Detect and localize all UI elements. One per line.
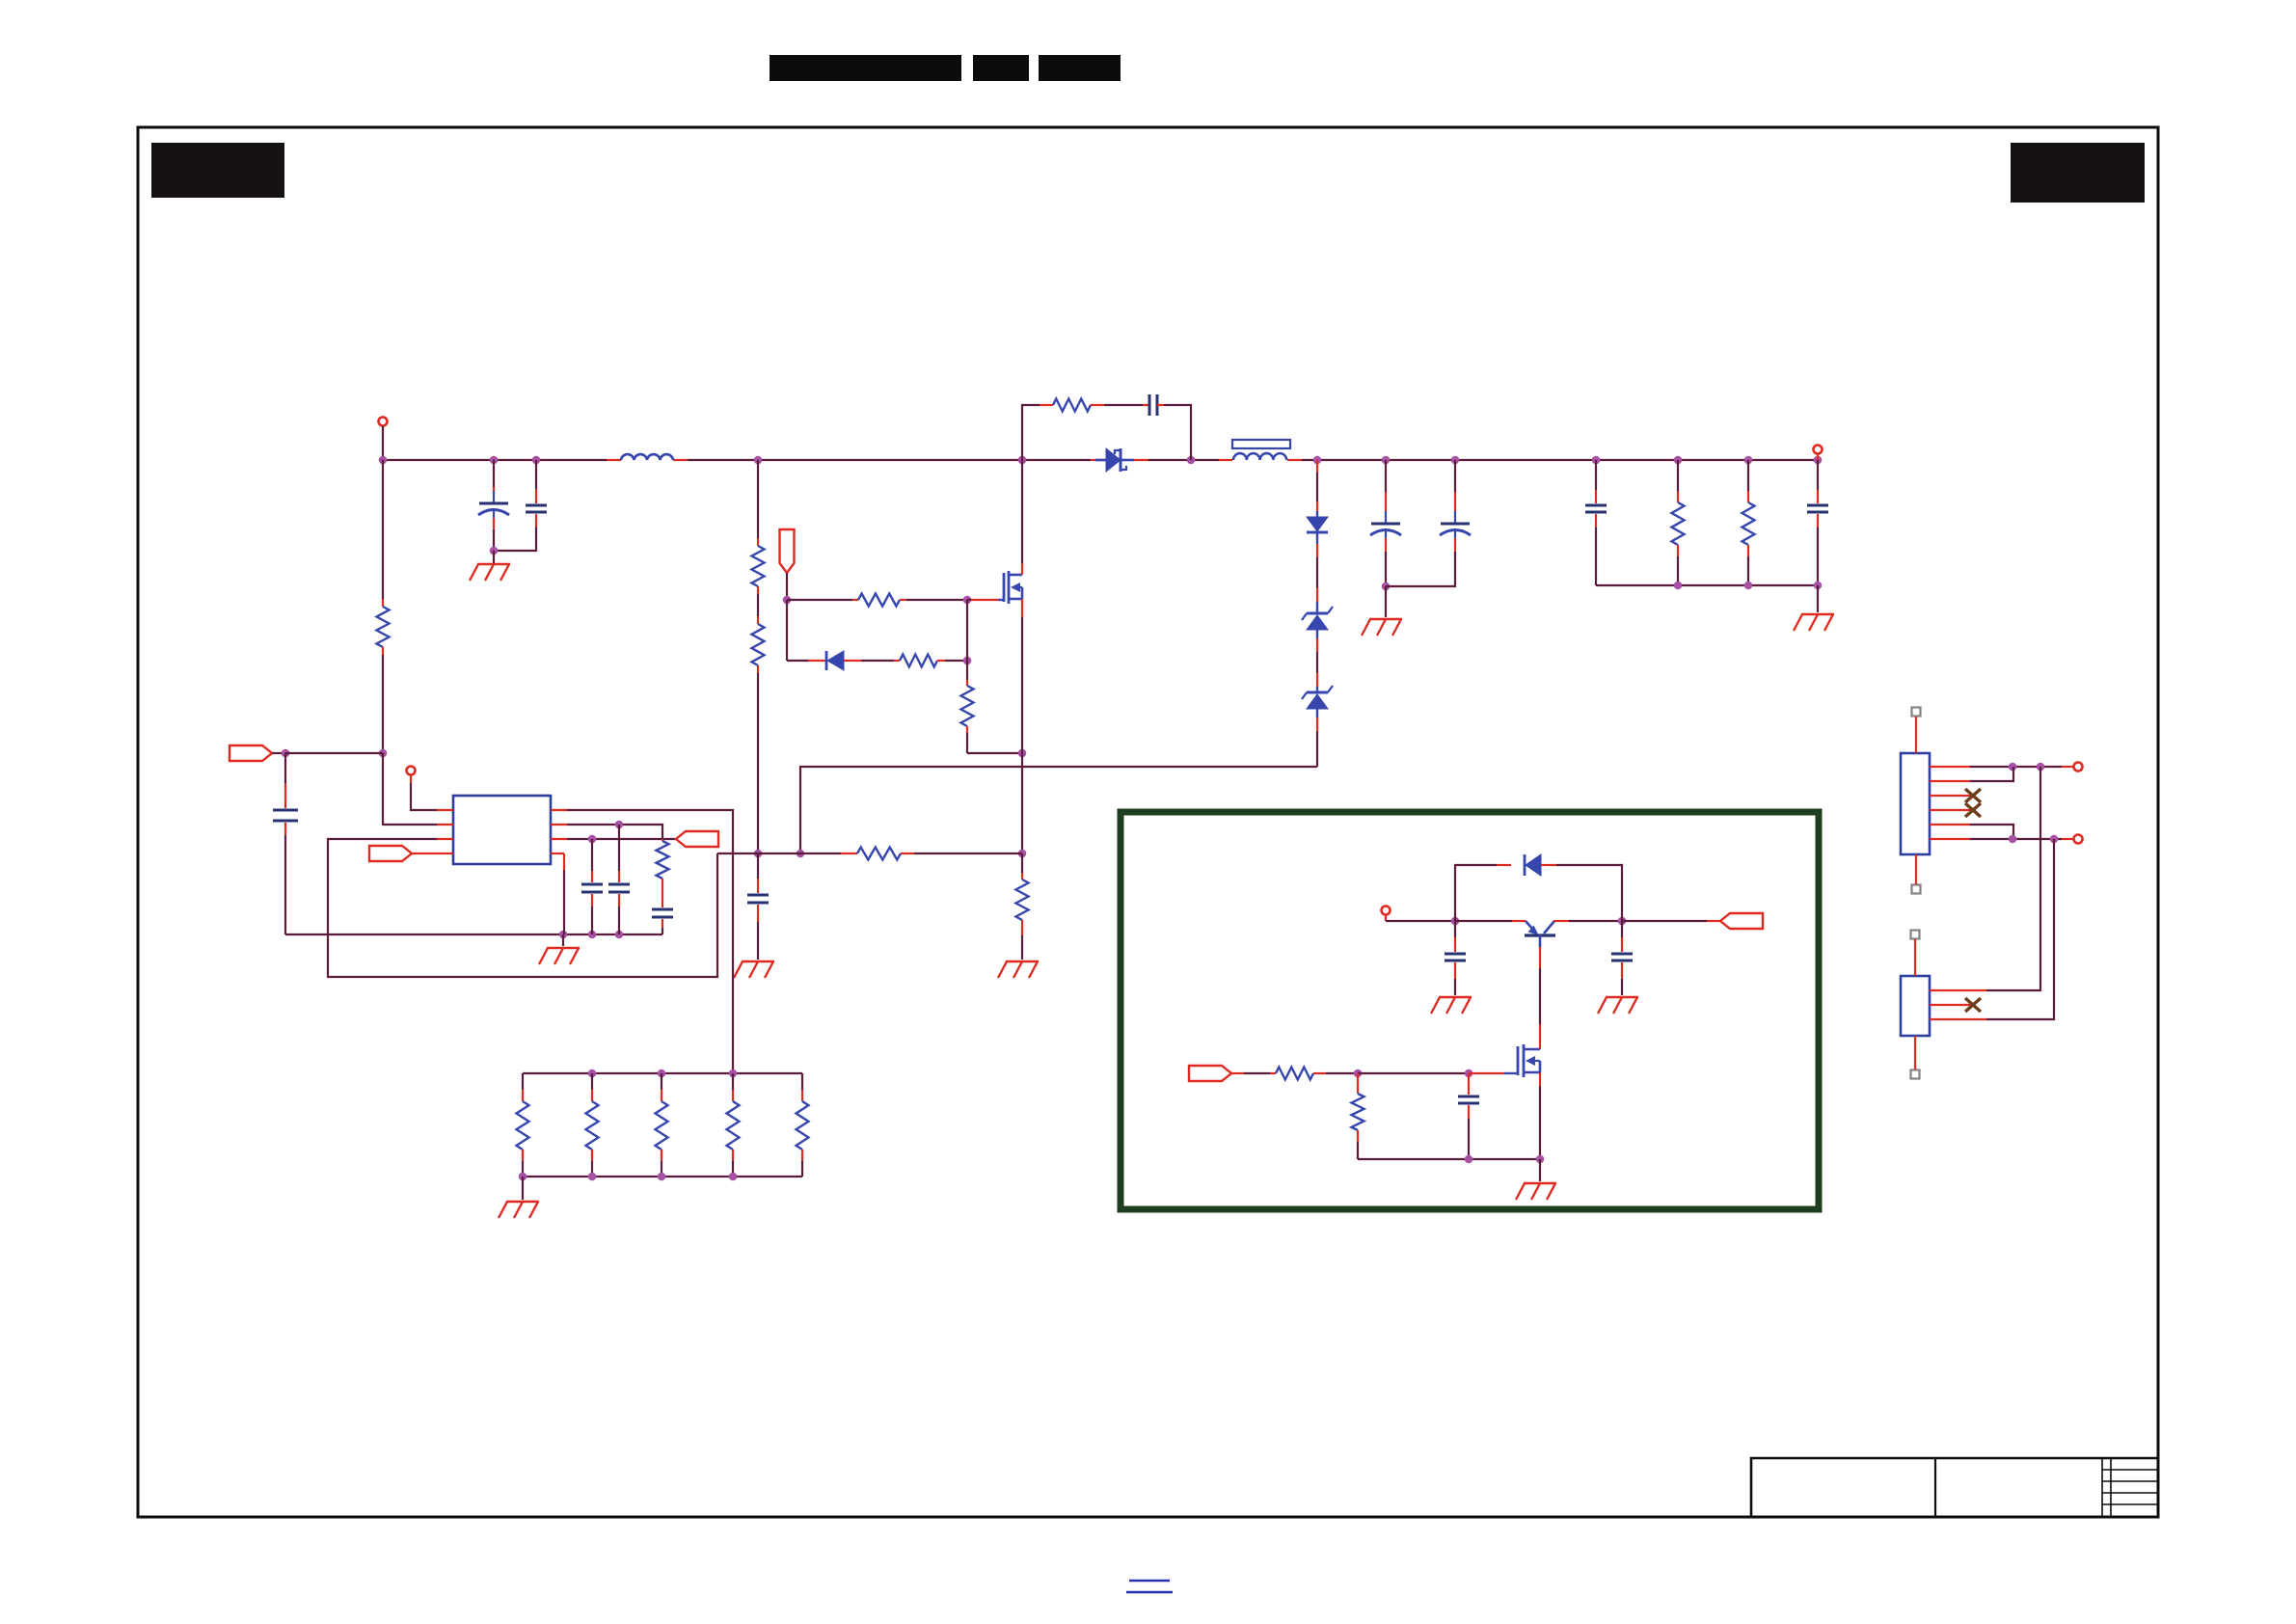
wire Q2 source rail — [1539, 1072, 1541, 1086]
resistor R18 (gate series) — [1276, 1068, 1313, 1080]
capacitor C15 (gate) — [1468, 1073, 1470, 1081]
wire pin1 to CN2 pin1 — [1986, 767, 2040, 990]
wire gate stub to Q1 — [967, 599, 971, 601]
wire divider tap — [382, 460, 384, 599]
ground C14 — [1606, 996, 1638, 998]
wire R2 to C3 — [757, 673, 759, 853]
junction output filter gnd — [1382, 582, 1391, 591]
resistor R19 (gate pulldown) — [1357, 1073, 1359, 1080]
net label flag VIN sense (down) — [780, 529, 795, 573]
wire J3 to emitter net — [1385, 914, 1387, 921]
junction feedback node — [379, 749, 388, 758]
wire resistor bank bottom rail — [523, 1176, 802, 1177]
capacitor C8 — [1817, 460, 1819, 490]
resistor R2 (divider bottom) — [757, 594, 759, 616]
junction source rail — [1465, 1155, 1473, 1164]
wire pin R4 to gnd rail — [563, 853, 565, 870]
IC U1 (controller) — [453, 796, 551, 864]
resistor R5b (return series) — [857, 848, 901, 860]
ground input filter — [477, 563, 510, 565]
transistor Q2 (N-MOSFET) — [1517, 1046, 1520, 1075]
wire gate return rail — [717, 853, 758, 854]
zener Z2 — [1316, 673, 1318, 687]
connector CN1 — [1901, 753, 1930, 854]
wire CN2 top mount — [1914, 939, 1916, 976]
diode D2 (clamp chain top) — [1316, 460, 1318, 473]
junction bus nodes — [379, 456, 388, 465]
wire IC loop pin L3 — [328, 839, 717, 977]
capacitor C6 (output, polarized) — [1454, 460, 1456, 492]
wire CN1 pin6 net — [1970, 838, 2062, 840]
resistor R11 — [1747, 460, 1749, 491]
wire flag to pin L4 — [412, 853, 437, 854]
wire bus red pin leads — [607, 459, 621, 461]
resistor R10 — [1677, 460, 1679, 491]
wire snubber loop top — [1022, 405, 1040, 460]
resistor R7 — [966, 661, 968, 680]
junction gate node — [1354, 1069, 1363, 1078]
junction bank top — [588, 1069, 597, 1078]
ground bleeder — [1801, 613, 1834, 615]
wire lower loop with D3 — [787, 660, 808, 662]
wire CN1 bottom mount — [1915, 854, 1917, 884]
resistor R16 — [732, 1073, 734, 1090]
transistor Q3 (PNP) — [1525, 934, 1555, 936]
enclosure box (green) — [1121, 812, 1819, 1209]
wire gnd rail stub — [562, 934, 564, 946]
junction gate drive node A — [783, 596, 792, 605]
zener Z1 — [1316, 588, 1318, 602]
junction node C — [963, 657, 972, 665]
pad CN1 top — [1912, 708, 1921, 717]
wire CN1 top mount — [1915, 717, 1917, 753]
capacitor C3 — [747, 894, 769, 897]
wire flag FB to node — [272, 752, 285, 754]
wire pin6 to CN2 pin3 — [1986, 839, 2054, 1019]
wire resistor bank top rail — [523, 1072, 802, 1074]
ground sense node — [742, 961, 774, 962]
resistor R17 — [801, 1073, 803, 1090]
resistor R9 (snubber) — [1053, 399, 1091, 412]
wire bleeder gnd stub — [1817, 585, 1819, 612]
wire C1/C2 bottom tie — [494, 550, 536, 551]
ground resistor bank — [506, 1201, 539, 1203]
junction pin1 — [2009, 763, 2017, 771]
net label flag VC (left) — [676, 831, 718, 847]
capacitor C13 — [1454, 921, 1456, 937]
resistor R6 — [900, 655, 937, 667]
capacitor C7 — [1595, 460, 1597, 490]
pad CN2 bottom — [1911, 1070, 1920, 1079]
junction pin6 — [2009, 835, 2017, 844]
wire pin R1 loop — [567, 810, 733, 1073]
capacitor C10 — [591, 839, 593, 871]
CN2 pin stubs — [1930, 989, 1970, 991]
diode D4 — [1524, 854, 1526, 876]
wire Q1 drain to bus — [1021, 460, 1023, 563]
resistor R8 (source to gnd) — [1021, 853, 1023, 873]
wire Q3 collector to flag — [1553, 920, 1569, 922]
terminal J3 — [1382, 907, 1391, 915]
wire pin R2 — [567, 825, 662, 839]
wire CN1 pin2 link — [1970, 767, 2013, 781]
resistor R5 (gate series) — [858, 594, 900, 607]
wire CN1 pin5 link — [1970, 825, 2013, 839]
capacitor C9 (feedback) — [284, 753, 286, 783]
capacitor C14 — [1621, 921, 1623, 937]
net label flag COMP (right) — [369, 846, 412, 861]
capacitor C5 (output, polarized) — [1385, 460, 1387, 492]
junction source/gate-return — [1018, 850, 1027, 858]
wire pin R3 — [567, 838, 676, 840]
resistor R12 (comp) — [662, 839, 663, 841]
junction bank bottom — [519, 1173, 527, 1181]
wire source gnd stub — [1539, 1159, 1541, 1181]
capacitor C4 (snubber) — [1143, 404, 1149, 406]
no-connect X pin4 — [1965, 803, 1981, 817]
wire gate drive upper — [787, 599, 852, 601]
inductor L2 (shielded) — [1232, 440, 1290, 448]
wire Q1 source down — [1021, 599, 1023, 617]
wire C5 gnd stub — [1385, 586, 1387, 617]
wire FB node to pin L2 — [383, 753, 437, 825]
ground output filter — [1369, 618, 1402, 620]
resistor R1 (divider top) — [757, 460, 759, 538]
terminal J2 (output +) — [1814, 446, 1823, 454]
net label flag PWM (right) — [1189, 1066, 1231, 1081]
wire Q3 base to Q2 drain — [1539, 947, 1541, 968]
ground C13 — [1439, 996, 1472, 998]
diode D1 (schottky, bus) — [1095, 459, 1106, 462]
terminal J1 (input +) — [379, 418, 388, 426]
wire clamp return — [800, 767, 1317, 853]
net label flag FB (left) — [230, 745, 272, 761]
wire output bleeder rail — [1596, 584, 1818, 586]
capacitor C12 (comp) — [652, 908, 673, 911]
wire R7 to source node — [967, 752, 1022, 754]
ground Q1 source — [1006, 961, 1039, 962]
wire CN1 pin1 net — [1970, 766, 2062, 768]
pad CN2 top — [1911, 931, 1920, 939]
terminal J5 — [2074, 835, 2083, 844]
wire diode loop — [1455, 865, 1497, 921]
resistor R14 — [591, 1073, 593, 1090]
resistor R13 — [522, 1073, 524, 1090]
inductor L1 — [621, 454, 673, 460]
no-connect X CN2 pin2 — [1965, 998, 1981, 1012]
no-connect X pin3 — [1965, 789, 1981, 802]
IC U1 pin stubs — [437, 809, 453, 811]
diode D3 — [825, 651, 828, 670]
pad CN1 bottom — [1912, 885, 1921, 894]
net label flag OUT (left) — [1720, 913, 1763, 929]
wire main bus — [383, 459, 607, 461]
terminal J4 — [2074, 763, 2083, 771]
wire PWM to gate — [1231, 1072, 1244, 1074]
resistor R15 — [661, 1073, 662, 1090]
terminal J6 (enable) — [407, 767, 416, 775]
CN1 pin stubs — [1930, 766, 1970, 768]
wire node A down — [786, 600, 788, 661]
wire J6 to pin L1 — [410, 775, 412, 783]
resistor R4 (feedback top) — [377, 607, 390, 647]
junction gnd rail — [559, 931, 568, 939]
capacitor C1 (polarized, input filter) — [493, 460, 495, 487]
wire bank gnd stub — [522, 1177, 524, 1200]
junction bleeder rail — [1674, 582, 1683, 590]
connector CN2 — [1901, 976, 1930, 1036]
capacitor C11 — [618, 825, 620, 871]
ground Q2 source — [1524, 1182, 1556, 1184]
wire IC analog gnd rail — [285, 934, 662, 935]
ground IC — [547, 947, 580, 949]
junction node B — [963, 596, 972, 605]
wire CN2 bottom mount — [1914, 1036, 1916, 1069]
wire node B-C vertical — [966, 600, 968, 661]
transistor Q1 (N-MOSFET) — [1003, 573, 1006, 602]
capacitor C2 (input filter) — [535, 460, 537, 489]
